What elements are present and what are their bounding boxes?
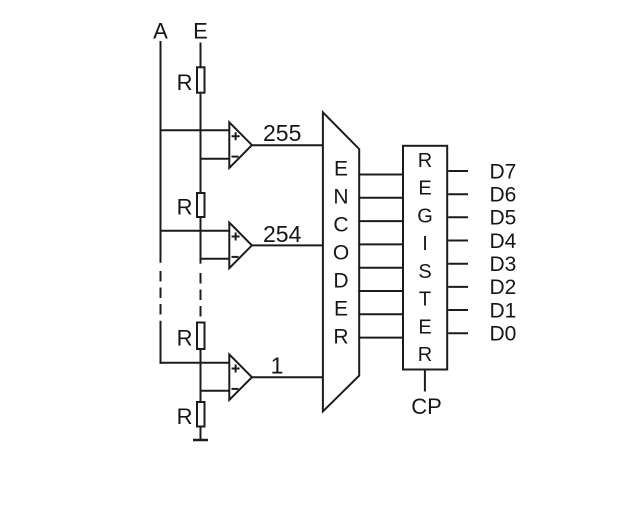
wire: register output D0 stub bbox=[448, 332, 468, 334]
wire: register output D7 stub bbox=[448, 170, 468, 172]
svg-text:1: 1 bbox=[271, 352, 284, 378]
svg-text:R: R bbox=[177, 326, 193, 351]
wire: E ladder bottom segment to ground bbox=[200, 428, 202, 440]
svg-text:D1: D1 bbox=[490, 299, 517, 322]
op-amp U1 (comparator 255) bbox=[229, 122, 252, 168]
svg-text:A: A bbox=[153, 19, 168, 44]
pin + of U2 bbox=[232, 233, 240, 241]
svg-text:D4: D4 bbox=[490, 230, 517, 253]
svg-text:N: N bbox=[333, 186, 348, 209]
wire: comparator U1 non-inverting input from A bbox=[160, 129, 230, 131]
resistor R4 bbox=[197, 402, 205, 427]
svg-text:E: E bbox=[193, 19, 208, 44]
svg-text:D6: D6 bbox=[490, 184, 517, 207]
wire: U3 output to encoder bbox=[252, 376, 324, 378]
ground bbox=[193, 439, 208, 442]
resistor R2 bbox=[197, 193, 205, 217]
wire: comparator U1 inverting input from ladder bbox=[200, 158, 230, 160]
wire: comparator U2 non-inverting input from A bbox=[160, 230, 230, 232]
svg-text:O: O bbox=[333, 242, 349, 265]
svg-text:E: E bbox=[418, 178, 431, 200]
pin + of U3 bbox=[232, 365, 240, 373]
label REGISTER (vertical) bbox=[417, 150, 433, 366]
svg-text:C: C bbox=[333, 214, 348, 237]
svg-text:D7: D7 bbox=[490, 160, 517, 183]
wire: input A vertical line dashed segment bbox=[160, 271, 162, 315]
svg-text:CP: CP bbox=[411, 394, 442, 419]
wire: U2 output to encoder bbox=[252, 244, 324, 246]
svg-text:G: G bbox=[417, 206, 433, 228]
svg-text:D0: D0 bbox=[490, 323, 517, 346]
wire: encoder output bit7 to register bbox=[358, 174, 404, 176]
encoder U4 block bbox=[323, 112, 359, 411]
wire: E reference top segment bbox=[200, 43, 202, 68]
svg-text:E: E bbox=[418, 317, 431, 339]
wire: encoder output bit6 to register bbox=[358, 197, 404, 199]
wire: E ladder between R3 and R4 bbox=[200, 350, 202, 402]
op-amp U3 (comparator 1) bbox=[229, 354, 252, 400]
svg-text:I: I bbox=[422, 233, 428, 255]
wire: register output D2 stub bbox=[448, 286, 468, 288]
wire: encoder output bit0 to register bbox=[358, 337, 404, 339]
wire: encoder output bit1 to register bbox=[358, 313, 404, 315]
wire: U1 output to encoder bbox=[252, 144, 324, 146]
svg-text:S: S bbox=[418, 261, 431, 283]
wire: register output D6 stub bbox=[448, 193, 468, 195]
op-amp U2 (comparator 254) bbox=[229, 223, 252, 269]
svg-text:D5: D5 bbox=[490, 207, 517, 230]
wire: register output D4 stub bbox=[448, 240, 468, 242]
wire: encoder output bit5 to register bbox=[358, 220, 404, 222]
wire: register output D3 stub bbox=[448, 263, 468, 265]
svg-text:R: R bbox=[418, 150, 432, 172]
wire: input A vertical line upper solid segment bbox=[160, 41, 162, 263]
wire: register output D1 stub bbox=[448, 309, 468, 311]
pin - of U1 bbox=[232, 156, 239, 158]
svg-text:R: R bbox=[418, 344, 432, 366]
svg-text:E: E bbox=[334, 298, 348, 321]
wire: encoder output bit2 to register bbox=[358, 290, 404, 292]
svg-text:D3: D3 bbox=[490, 253, 517, 276]
wire: comparator U3 non-inverting input from A bbox=[160, 362, 230, 364]
pin - of U2 bbox=[232, 256, 239, 258]
svg-text:D2: D2 bbox=[490, 276, 517, 299]
wire: E ladder between R1 and R2 bbox=[200, 94, 202, 193]
register U5 block bbox=[403, 146, 447, 370]
label ENCODER (vertical) bbox=[333, 158, 349, 349]
svg-text:T: T bbox=[419, 289, 431, 311]
pin + of U1 bbox=[232, 132, 240, 140]
wire: clock CP input stub bbox=[424, 371, 426, 392]
svg-text:E: E bbox=[334, 158, 348, 181]
svg-text:R: R bbox=[177, 70, 193, 95]
svg-text:255: 255 bbox=[263, 120, 301, 146]
wire: encoder output bit4 to register bbox=[358, 243, 404, 245]
resistor R3 bbox=[197, 323, 205, 350]
svg-text:D: D bbox=[333, 270, 348, 293]
svg-text:R: R bbox=[177, 195, 193, 220]
pin - of U3 bbox=[232, 388, 239, 390]
svg-text:R: R bbox=[177, 404, 193, 429]
wire: register output D5 stub bbox=[448, 216, 468, 218]
wire: encoder output bit3 to register bbox=[358, 267, 404, 269]
wire: comparator U2 inverting input from ladder bbox=[200, 258, 230, 260]
wire: comparator U3 inverting input from ladder bbox=[200, 390, 230, 392]
resistor R1 bbox=[197, 67, 205, 92]
wire: input A vertical line lower solid segment bbox=[160, 321, 162, 364]
wire: E ladder below R2 bbox=[200, 218, 202, 264]
svg-text:R: R bbox=[333, 326, 348, 349]
wire: E ladder dashed segment bbox=[200, 273, 202, 317]
svg-text:254: 254 bbox=[263, 221, 302, 247]
